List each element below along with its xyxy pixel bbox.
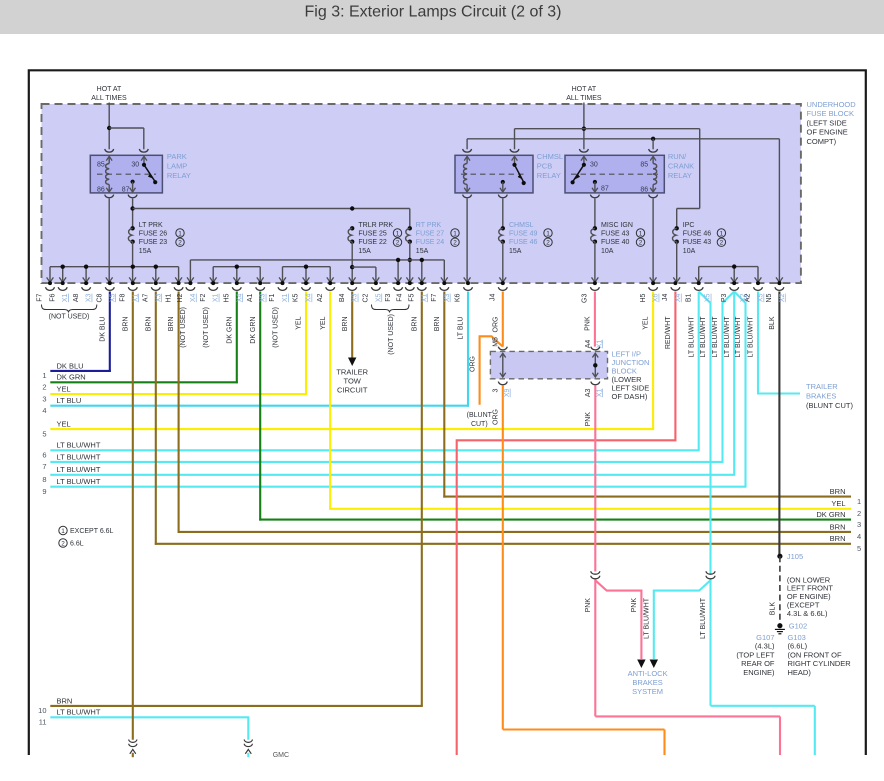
svg-text:OF ENGINE: OF ENGINE [807, 128, 848, 137]
svg-text:PNK: PNK [585, 316, 592, 331]
svg-text:FUSE 25: FUSE 25 [358, 231, 387, 238]
svg-text:SYSTEM: SYSTEM [632, 687, 663, 696]
svg-text:J4: J4 [662, 294, 669, 302]
wire PNK main continues [594, 580, 596, 717]
svg-text:4: 4 [42, 406, 46, 415]
wire 4 LT BLU horizontal [50, 405, 469, 407]
wire rt prk fuse to bus [409, 242, 411, 282]
svg-text:FUSE 23: FUSE 23 [139, 239, 168, 246]
wire park relay 87 down [132, 199, 134, 229]
svg-text:ORG: ORG [492, 409, 499, 425]
wire 5 YEL horizontal [50, 428, 654, 430]
svg-text:(TOP LEFT: (TOP LEFT [736, 650, 774, 659]
wire LT BLU/WHT P3 fan-right vertical [734, 292, 745, 487]
chmsl relay switch [514, 157, 516, 164]
connector cups chmsl relay bottom [463, 195, 472, 198]
wire run-crank coil feed rail [467, 138, 779, 140]
svg-text:PNK: PNK [585, 412, 592, 427]
wire lt prk fuse to pin F8 [132, 242, 134, 282]
svg-text:BRN: BRN [342, 317, 349, 332]
chmsl relay out pin [501, 180, 505, 184]
svg-text:IPC: IPC [683, 222, 695, 229]
splice PNK [591, 571, 600, 574]
svg-text:BRAKES: BRAKES [632, 678, 662, 687]
svg-text:RUN/: RUN/ [668, 152, 687, 161]
svg-text:RED/WHT: RED/WHT [665, 316, 672, 349]
svg-text:10A: 10A [683, 248, 696, 255]
run crank relay switch pin 30 [583, 157, 585, 164]
svg-text:X5: X5 [109, 293, 116, 302]
svg-text:X2: X2 [779, 293, 786, 302]
svg-text:B1: B1 [685, 293, 692, 302]
svg-text:6.6L: 6.6L [70, 541, 84, 548]
wire LT BLU/WHT P3 fan-left vertical [723, 292, 735, 462]
svg-text:ALL TIMES: ALL TIMES [91, 95, 127, 102]
svg-text:1: 1 [61, 528, 65, 535]
wire LT BLU/WHT B1 fan vertical [699, 292, 711, 575]
svg-text:UNDERHOOD: UNDERHOOD [807, 100, 857, 109]
svg-text:F7: F7 [37, 293, 44, 301]
wire misc ign fuse to pin G3 [594, 242, 596, 282]
svg-text:PNK: PNK [631, 598, 638, 613]
svg-text:87: 87 [122, 186, 130, 193]
svg-text:G3: G3 [582, 293, 589, 302]
wire 87 branch to right fuses [133, 208, 410, 210]
junction block cups bottom [498, 382, 507, 385]
junction block internal right [594, 355, 596, 377]
wire 10 BRN horizontal [50, 705, 423, 707]
legend except 6.6L [59, 526, 67, 534]
svg-text:DK GRN: DK GRN [57, 373, 86, 382]
svg-text:LT BLU/WHT: LT BLU/WHT [748, 316, 755, 358]
svg-text:BRN: BRN [145, 317, 152, 332]
junction block internal left [502, 355, 504, 377]
junction dot trlr prk feed [350, 206, 354, 210]
svg-text:LT BLU/WHT: LT BLU/WHT [57, 452, 101, 461]
svg-text:TRAILER: TRAILER [336, 367, 368, 376]
wire 8 LT BLU/WHT horizontal [50, 474, 735, 476]
wire BLK dashed to ground [779, 556, 781, 626]
junction block cups top [498, 347, 507, 350]
svg-text:X6: X6 [653, 293, 660, 302]
wire ipc fuse to pin J4 red [676, 242, 678, 282]
svg-text:H5: H5 [224, 293, 231, 302]
svg-text:2: 2 [546, 240, 550, 247]
arrow abs cyan [650, 660, 658, 669]
wire 7 LT BLU/WHT horizontal [50, 461, 723, 463]
svg-text:HOT AT: HOT AT [97, 86, 122, 93]
svg-text:A3: A3 [585, 388, 592, 397]
svg-text:9: 9 [42, 487, 46, 496]
bus B1-A2 right [699, 266, 758, 268]
wire trailer brakes horizontal [758, 392, 800, 394]
svg-text:X1: X1 [421, 293, 428, 302]
wire rail to pin N5 blk [778, 139, 780, 281]
svg-text:BRN: BRN [830, 487, 846, 496]
svg-text:6: 6 [42, 451, 46, 460]
svg-text:3: 3 [492, 389, 499, 393]
svg-text:BRN: BRN [411, 317, 418, 332]
svg-text:FUSE 43: FUSE 43 [683, 239, 712, 246]
wire PNK below junction block [594, 386, 596, 572]
svg-text:2: 2 [857, 509, 861, 518]
svg-text:(6.6L): (6.6L) [788, 642, 808, 651]
svg-text:15A: 15A [358, 248, 371, 255]
svg-text:F8: F8 [120, 293, 127, 301]
svg-text:X1: X1 [132, 293, 139, 302]
svg-text:K6: K6 [455, 293, 462, 302]
svg-text:X3: X3 [352, 293, 359, 302]
wire LT BLU/WHT B1 straight vertical [698, 292, 700, 451]
svg-text:A4: A4 [585, 340, 592, 349]
relay PARK LAMP RELAY [90, 155, 162, 193]
wire branch to relay pin 30 [109, 127, 144, 129]
svg-text:2: 2 [396, 240, 400, 247]
right wire 1 BRN horizontal [443, 496, 851, 498]
svg-text:YEL: YEL [57, 420, 71, 429]
svg-text:J105: J105 [787, 552, 803, 561]
svg-text:(NOT USED): (NOT USED) [388, 314, 395, 355]
svg-text:ENGINE): ENGINE) [743, 668, 775, 677]
svg-text:ORG: ORG [492, 317, 499, 333]
wire 9 LT BLU/WHT horizontal [50, 486, 746, 488]
fuse CHMSL FUSE 49/46 15A [501, 226, 505, 230]
fuse RT PRK FUSE 27/24 15A [408, 226, 412, 230]
svg-text:LT BLU/WHT: LT BLU/WHT [57, 477, 101, 486]
svg-text:X3: X3 [86, 293, 93, 302]
svg-text:X1: X1 [596, 340, 603, 349]
svg-text:LT BLU: LT BLU [458, 317, 465, 340]
wire PNK from G3 to junction block [594, 292, 596, 347]
wire PNK bottom vertical [779, 716, 781, 755]
svg-text:BRAKES: BRAKES [806, 391, 836, 400]
svg-text:X1: X1 [213, 293, 220, 302]
svg-text:7: 7 [42, 462, 46, 471]
junction dot right hot [582, 127, 586, 131]
wire chmsl switch to fuse [502, 199, 504, 229]
svg-text:LT BLU/WHT: LT BLU/WHT [700, 316, 707, 358]
svg-text:F5: F5 [409, 293, 416, 301]
park relay pin 30 arrow [143, 157, 145, 164]
svg-text:FUSE 43: FUSE 43 [601, 231, 630, 238]
wire chmsl fuse to pin J4 [502, 242, 504, 282]
svg-text:1: 1 [720, 231, 724, 238]
wire pnk lower horizontal [595, 715, 780, 717]
svg-text:(NOT USED): (NOT USED) [203, 307, 210, 348]
wire 11 vertical at 248 [247, 717, 249, 740]
svg-text:PCB: PCB [537, 162, 552, 171]
not used brace left group [42, 305, 97, 313]
svg-text:30: 30 [131, 162, 139, 169]
svg-text:X9: X9 [504, 388, 511, 397]
wire 1 DK BLU horizontal [50, 370, 111, 372]
svg-text:HOT AT: HOT AT [572, 86, 597, 93]
fuse IPC FUSE 46/43 10A [675, 226, 679, 230]
svg-text:DK BLU: DK BLU [57, 361, 84, 370]
svg-text:LT PRK: LT PRK [139, 222, 163, 229]
svg-text:RIGHT CYLINDER: RIGHT CYLINDER [788, 659, 852, 668]
svg-text:1: 1 [639, 231, 643, 238]
bus left group [50, 266, 179, 268]
node J105 [777, 554, 782, 559]
junction dot rt prk bus [408, 258, 412, 262]
svg-text:A2: A2 [317, 293, 324, 302]
pin row dots and cups [46, 281, 784, 290]
connector cups run crank bottom [590, 195, 599, 198]
svg-text:DK BLU: DK BLU [99, 317, 106, 342]
svg-text:GMC: GMC [273, 752, 289, 759]
arrow trailer tow [348, 358, 356, 367]
svg-text:ALL TIMES: ALL TIMES [566, 95, 602, 102]
svg-text:LT BLU/WHT: LT BLU/WHT [688, 316, 695, 358]
svg-text:Fig 3: Exterior Lamps Circuit: Fig 3: Exterior Lamps Circuit (2 of 3) [305, 4, 562, 21]
svg-text:N5: N5 [766, 293, 773, 302]
svg-text:LT BLU: LT BLU [57, 396, 82, 405]
park relay pin 85 arrow [108, 157, 110, 164]
svg-text:HEAD): HEAD) [788, 668, 812, 677]
svg-text:LT BLU/WHT: LT BLU/WHT [57, 465, 101, 474]
svg-text:X4: X4 [675, 293, 682, 302]
svg-text:FUSE 27: FUSE 27 [416, 231, 445, 238]
svg-text:X1: X1 [282, 293, 289, 302]
wire RED/WHT from J4/X4 [457, 292, 676, 756]
svg-text:15A: 15A [416, 248, 429, 255]
svg-text:10A: 10A [601, 248, 614, 255]
svg-text:YEL: YEL [643, 316, 650, 329]
svg-text:REAR OF: REAR OF [741, 659, 775, 668]
wire run crank 86 to pin H5 [652, 199, 654, 282]
svg-text:MISC IGN: MISC IGN [601, 222, 633, 229]
svg-text:RELAY: RELAY [537, 171, 561, 180]
svg-text:FUSE 26: FUSE 26 [139, 231, 168, 238]
svg-text:M5: M5 [492, 337, 499, 347]
wire down to rt prk fuse [409, 209, 411, 229]
wire hot branch chmsl switch / ipc [515, 128, 700, 130]
park relay switch [142, 163, 146, 167]
junction dot left hot [107, 126, 111, 130]
svg-text:A1: A1 [247, 293, 254, 302]
svg-text:(NOT USED): (NOT USED) [49, 313, 90, 320]
relay CHMSL PCB RELAY [455, 155, 533, 193]
svg-text:5: 5 [857, 544, 861, 553]
svg-text:RT PRK: RT PRK [416, 222, 442, 229]
svg-text:F4: F4 [397, 293, 404, 301]
wire YEL from A2 vertical [329, 292, 331, 510]
wire LT BLU/WHT A2 vertical to trailer brakes [757, 292, 759, 395]
wire LT BLU/WHT main continues [709, 580, 711, 706]
svg-text:DK GRN: DK GRN [816, 510, 845, 519]
svg-text:BRN: BRN [122, 317, 129, 332]
svg-text:LT BLU/WHT: LT BLU/WHT [643, 597, 650, 639]
svg-text:YEL: YEL [320, 316, 327, 329]
underhood fuse block [42, 104, 801, 283]
svg-text:2: 2 [42, 383, 46, 392]
connector cup park relay pin 30 [139, 149, 148, 152]
svg-text:1: 1 [42, 371, 46, 380]
svg-text:CRANK: CRANK [668, 162, 694, 171]
svg-text:1: 1 [396, 231, 400, 238]
junction dot 87 branch [130, 206, 134, 210]
svg-text:(NOT USED): (NOT USED) [272, 307, 279, 348]
svg-text:BRN: BRN [168, 317, 175, 332]
wire LT BLU from K6 vertical [467, 292, 469, 407]
svg-text:86: 86 [97, 186, 105, 193]
wire LT BLU/WHT P3 straight vertical [733, 292, 735, 475]
svg-text:FUSE 24: FUSE 24 [416, 239, 445, 246]
inline connector cyan bottom [244, 740, 252, 743]
svg-text:YEL: YEL [831, 499, 845, 508]
svg-text:2: 2 [178, 240, 182, 247]
svg-text:X5: X5 [758, 293, 765, 302]
svg-text:BRN: BRN [57, 696, 73, 705]
fuse TRLR PRK FUSE 25/22 15A [350, 226, 354, 230]
svg-text:3: 3 [857, 520, 861, 529]
svg-text:J4: J4 [490, 294, 497, 302]
svg-text:LAMP: LAMP [167, 162, 187, 171]
svg-text:2: 2 [453, 240, 457, 247]
relay RUN/CRANK RELAY [565, 155, 664, 193]
junction dot trlr out [350, 265, 354, 269]
svg-text:(BLUNT CUT): (BLUNT CUT) [806, 401, 853, 410]
svg-text:YEL: YEL [296, 316, 303, 329]
svg-text:15A: 15A [509, 248, 522, 255]
wire 6 LT BLU/WHT horizontal [50, 449, 699, 451]
wire YEL from H5/X6 vertical [652, 292, 654, 430]
wire park relay 86 to pin C8 [108, 199, 110, 282]
run crank relay coil 85-86 [652, 157, 654, 164]
inline connector BRN bottom [129, 740, 137, 743]
title bar [0, 0, 884, 34]
svg-text:RELAY: RELAY [167, 171, 191, 180]
wire trlr prk fuse to pin B4 [351, 242, 353, 282]
run crank relay pin 87 [593, 180, 597, 184]
wire 11 LT BLU/WHT horizontal [50, 716, 249, 718]
svg-text:LT BLU/WHT: LT BLU/WHT [700, 597, 707, 639]
svg-text:1: 1 [178, 231, 182, 238]
wire DK GRN from A1 vertical [259, 292, 261, 521]
svg-text:BRN: BRN [434, 317, 441, 332]
wire BRN from F8 vertical [132, 292, 134, 740]
right wire 5 BRN horizontal [155, 543, 851, 545]
svg-text:FUSE 49: FUSE 49 [509, 231, 538, 238]
svg-text:30: 30 [590, 162, 598, 169]
fuse LT PRK FUSE 26/23 15A [130, 226, 134, 230]
arrow abs pnk [637, 660, 645, 669]
wire hot feed right vertical [583, 103, 585, 150]
svg-text:H5: H5 [640, 293, 647, 302]
wire LT BLU/WHT branch to abs [654, 580, 711, 659]
svg-text:A2: A2 [745, 293, 752, 302]
wire BRN from A7 vertical [155, 292, 157, 545]
connector cup park relay pin 87 out [128, 195, 137, 198]
svg-text:LT BLU/WHT: LT BLU/WHT [57, 441, 101, 450]
svg-text:2: 2 [639, 240, 643, 247]
svg-text:X5: X5 [375, 293, 382, 302]
right wire 4 BRN horizontal [178, 531, 851, 533]
svg-text:(LEFT SIDE: (LEFT SIDE [807, 118, 847, 127]
svg-text:COMPT): COMPT) [807, 137, 837, 146]
svg-text:5: 5 [42, 429, 46, 438]
LEFT I/P JUNCTION BLOCK [490, 351, 607, 378]
connector cup park relay pin 86 out [105, 195, 114, 198]
svg-text:BLK: BLK [769, 316, 776, 330]
svg-text:TRLR PRK: TRLR PRK [358, 222, 393, 229]
wire 3 YEL horizontal [50, 393, 307, 395]
svg-text:(4.3L): (4.3L) [755, 642, 775, 651]
svg-text:FUSE 22: FUSE 22 [358, 239, 387, 246]
svg-text:G107: G107 [756, 633, 774, 642]
svg-text:FUSE 46: FUSE 46 [683, 231, 712, 238]
wire YEL from K5 vertical [305, 292, 307, 396]
junction dot right leg [593, 363, 597, 367]
splice LT BLU/WHT [706, 571, 715, 574]
park relay pin 86 arrow [108, 185, 110, 192]
wire DK BLU from C8 vertical [109, 292, 111, 372]
svg-text:TRAILER: TRAILER [806, 382, 838, 391]
svg-text:C2: C2 [363, 293, 370, 302]
svg-text:87: 87 [601, 186, 609, 193]
svg-text:2: 2 [61, 541, 65, 548]
svg-text:DK GRN: DK GRN [226, 317, 233, 344]
svg-text:X3: X3 [260, 293, 267, 302]
wire BRN from H1 vertical [178, 292, 180, 533]
svg-text:PNK: PNK [585, 598, 592, 613]
svg-text:H1: H1 [165, 293, 172, 302]
svg-text:(ON FRONT OF: (ON FRONT OF [788, 650, 842, 659]
not used brace C2-F4 group [372, 305, 410, 313]
svg-text:2: 2 [720, 240, 724, 247]
svg-text:LT BLU/WHT: LT BLU/WHT [712, 316, 719, 358]
svg-text:OF DASH): OF DASH) [612, 392, 648, 401]
legend 6.6L [59, 539, 67, 547]
wire BRN from F7 vertical [443, 292, 445, 498]
svg-text:BLK: BLK [770, 602, 777, 616]
connector cups chmsl relay top [463, 149, 472, 152]
svg-text:CUT): CUT) [471, 421, 488, 428]
svg-text:FUSE BLOCK: FUSE BLOCK [807, 109, 855, 118]
svg-text:86: 86 [640, 186, 648, 193]
svg-text:85: 85 [97, 162, 105, 169]
svg-text:B4: B4 [339, 293, 346, 302]
wire org lower horizontal [503, 728, 665, 730]
wire BRN from B4 vertical [351, 292, 353, 358]
svg-text:F6: F6 [49, 293, 56, 301]
svg-text:BRN: BRN [830, 534, 846, 543]
svg-text:K5: K5 [293, 293, 300, 302]
junction dot coil rail [651, 137, 655, 141]
wire run crank 87 to fuse [594, 199, 596, 229]
svg-text:G103: G103 [788, 633, 806, 642]
svg-text:CHMSL: CHMSL [537, 152, 563, 161]
svg-text:BRN: BRN [830, 522, 846, 531]
connector cup park relay pin 85 [105, 149, 114, 152]
right wire 3 DK GRN horizontal [259, 519, 851, 521]
svg-text:X4: X4 [190, 293, 197, 302]
wire PNK branch to abs [595, 580, 641, 659]
svg-text:X3: X3 [444, 293, 451, 302]
svg-text:YEL: YEL [57, 384, 71, 393]
svg-text:CIRCUIT: CIRCUIT [337, 385, 368, 394]
right wire 2 YEL horizontal [329, 508, 851, 510]
svg-text:X1: X1 [62, 293, 69, 302]
svg-text:H2: H2 [177, 293, 184, 302]
svg-text:PARK: PARK [167, 152, 187, 161]
wire BLK from N5 to J105 [778, 292, 780, 557]
svg-text:3: 3 [42, 394, 46, 403]
park relay coil [106, 164, 110, 185]
svg-text:1: 1 [546, 231, 550, 238]
svg-text:15A: 15A [139, 248, 152, 255]
